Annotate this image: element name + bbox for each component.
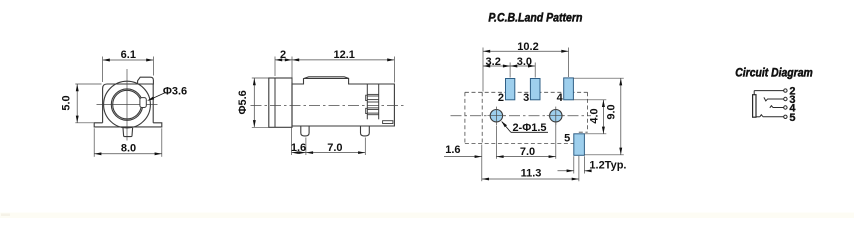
svg-text:8.0: 8.0 [121,143,136,155]
svg-text:Φ5.6: Φ5.6 [237,90,249,114]
svg-text:7.0: 7.0 [520,146,535,158]
svg-text:Φ3.6: Φ3.6 [163,86,187,98]
svg-text:5: 5 [789,112,795,124]
svg-text:4.0: 4.0 [588,108,600,123]
svg-text:2-Φ1.5: 2-Φ1.5 [512,122,546,134]
svg-text:P.C.B.Land Pattern: P.C.B.Land Pattern [488,10,582,24]
svg-text:1.6: 1.6 [291,142,306,154]
svg-text:Circuit Diagram: Circuit Diagram [735,66,813,80]
svg-text:3.0: 3.0 [517,56,532,68]
svg-text:1.6: 1.6 [445,144,460,156]
svg-text:11.3: 11.3 [521,168,542,180]
svg-text:2: 2 [280,49,286,61]
svg-text:1.2Typ.: 1.2Typ. [589,160,626,172]
svg-text:5.0: 5.0 [60,95,72,110]
svg-text:3.2: 3.2 [486,56,501,68]
svg-text:7.0: 7.0 [327,142,342,154]
svg-text:6.1: 6.1 [121,49,136,61]
svg-text:10.2: 10.2 [517,41,538,53]
svg-text:12.1: 12.1 [333,49,354,61]
svg-text:4: 4 [557,92,564,104]
svg-text:5: 5 [564,132,570,144]
svg-text:3: 3 [523,92,529,104]
svg-text:9.0: 9.0 [606,104,618,119]
svg-text:2: 2 [498,92,504,104]
